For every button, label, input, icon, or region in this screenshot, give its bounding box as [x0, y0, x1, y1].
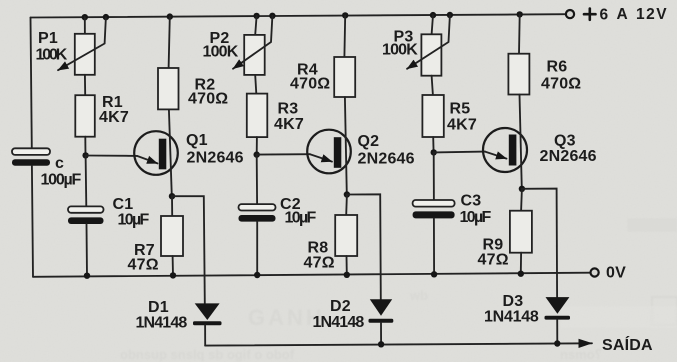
wire: emitter node to Q1 emitter — [86, 155, 137, 157]
resistor R9 — [510, 211, 532, 253]
wire: R1 to emitter node — [84, 137, 86, 156]
svg-text:4K7: 4K7 — [274, 116, 304, 133]
wire: R5 to emitter node — [432, 137, 434, 152]
wire: rail to R2 — [169, 17, 170, 68]
svg-text:4K7: 4K7 — [99, 109, 129, 126]
wire: B1 node to D3 branch — [522, 189, 557, 298]
svg-text:nsmo⸮: nsmo⸮ — [560, 347, 602, 362]
junction: B1 node stage 2 — [344, 191, 350, 197]
svg-text:D1: D1 — [148, 299, 169, 316]
transistor Q3 circle — [483, 128, 527, 172]
potentiometer P1 wiper arrow — [58, 17, 106, 70]
wire: R7 to 0V rail — [172, 256, 174, 275]
wire: C3 to 0V rail — [433, 218, 435, 274]
svg-text:2N2646: 2N2646 — [187, 150, 244, 167]
diode D3 triangle — [546, 297, 570, 314]
capacitor C3 — [413, 200, 455, 207]
transistor Q2 base bar — [334, 137, 342, 168]
svg-text:1N4148: 1N4148 — [136, 315, 188, 332]
wire: D2 to output rail — [380, 323, 382, 345]
potentiometer P1 body — [75, 34, 95, 75]
wire: D3 to output rail — [556, 320, 558, 344]
junction: B1 node stage 1 — [169, 193, 175, 199]
svg-text:470Ω: 470Ω — [541, 76, 581, 93]
wire: rail to R4 — [343, 15, 346, 57]
wire: B1 node to D2 branch — [347, 194, 381, 299]
wire: C2 to 0V rail — [256, 222, 258, 275]
svg-text:12V: 12V — [636, 6, 668, 23]
svg-text:R5: R5 — [450, 101, 471, 118]
diode D1 triangle — [195, 303, 220, 320]
junction: emitter node stage 3 — [431, 149, 437, 155]
resistor R7 — [161, 216, 183, 256]
wire: rail to P2 top — [255, 16, 256, 35]
svg-text:C3: C3 — [461, 193, 482, 210]
junction: P1 top on +V rail — [82, 14, 88, 20]
diode D3 cathode bar — [545, 316, 571, 320]
wire: rail to P1 top — [84, 17, 86, 34]
capacitor C2 — [239, 204, 276, 210]
junction: P2 top on +V rail — [253, 13, 259, 19]
diode D1 cathode bar — [193, 321, 222, 325]
wire: B1 node to R9 — [520, 189, 523, 211]
svg-text:10µF: 10µF — [118, 211, 150, 228]
transistor Q3 emitter arrow — [485, 152, 507, 159]
wire: R6 to Q3 base line — [520, 95, 522, 189]
svg-text:Q3: Q3 — [554, 133, 576, 150]
wire: B1 node to R7 — [171, 196, 173, 216]
junction: R6 top on +V rail — [517, 11, 523, 17]
svg-text:470Ω: 470Ω — [290, 76, 330, 93]
junction: R8 on 0V rail — [344, 272, 350, 278]
diode D2 triangle — [370, 299, 392, 316]
svg-text:A: A — [617, 6, 630, 23]
svg-text:obnsup snslq sb ogif o obof: obnsup snslq sb ogif o obof — [120, 347, 295, 362]
wire: R8 to 0V rail — [346, 256, 348, 275]
svg-text:100K: 100K — [382, 42, 418, 59]
junction: R7 on 0V rail — [170, 272, 176, 278]
terminal: 0V open circle — [591, 268, 599, 276]
junction: R9 on 0V rail — [518, 271, 524, 277]
resistor R5 — [422, 95, 443, 137]
wire: C3 top — [433, 152, 435, 200]
svg-text:10µF: 10µF — [285, 210, 317, 227]
wire: capacitor C to 0V rail — [32, 166, 33, 277]
svg-text:c: c — [55, 155, 64, 172]
resistor R3 — [247, 94, 267, 138]
svg-text:10µF: 10µF — [460, 209, 492, 226]
wire: P1 to R1 — [84, 75, 86, 95]
svg-text:2N2646: 2N2646 — [358, 151, 415, 168]
svg-text:0V: 0V — [606, 265, 626, 282]
junction: R4 top on +V rail — [342, 12, 348, 18]
resistor R8 — [335, 215, 357, 256]
svg-text:Q1: Q1 — [186, 132, 208, 149]
junction: R2 top on +V rail — [167, 13, 173, 19]
wire: R3 to emitter node — [256, 137, 258, 154]
junction: C2 on 0V rail — [254, 272, 260, 278]
junction: emitter node stage 1 — [82, 152, 88, 158]
wire: C2 top — [256, 155, 258, 205]
wire: rail to P3 top — [432, 15, 433, 34]
svg-text:100K: 100K — [36, 47, 68, 64]
resistor R4 — [334, 57, 355, 97]
resistor R1 — [75, 95, 95, 137]
potentiometer P3 body — [421, 34, 441, 75]
svg-text:1N4148: 1N4148 — [313, 314, 365, 331]
junction: D2 on output rail — [378, 341, 384, 347]
wire: C1 to 0V rail — [86, 224, 89, 276]
capacitor C — [12, 148, 50, 155]
wire: rail to R6 — [518, 14, 521, 53]
transistor Q2 circle — [307, 130, 351, 174]
transistor Q3 base bar — [509, 135, 517, 166]
diode D2 cathode bar — [369, 319, 394, 323]
junction: P1 wiper on +V rail — [103, 14, 109, 20]
wire: emitter node to Q2 emitter — [257, 153, 310, 155]
faint bleed-through ghost text — [120, 218, 677, 362]
svg-text:P1: P1 — [38, 30, 58, 47]
svg-text:R3: R3 — [278, 101, 299, 118]
label: +6 A 12V — [584, 9, 596, 20]
svg-text:47Ω: 47Ω — [128, 257, 159, 274]
wire: left branch vertical (top rail to capacitor C) — [31, 18, 32, 149]
capacitor C1 — [68, 206, 104, 212]
wire: B1 node to D1 branch — [172, 196, 205, 304]
svg-text:6: 6 — [600, 6, 610, 23]
svg-text:4K7: 4K7 — [447, 117, 477, 134]
svg-text:1N4148: 1N4148 — [484, 309, 539, 326]
junction: D3 on output rail — [554, 340, 560, 346]
svg-text:Q2: Q2 — [358, 133, 380, 150]
wire: 0V rail — [33, 273, 590, 277]
svg-text:C1: C1 — [113, 196, 134, 213]
resistor R6 — [508, 54, 529, 95]
junction: emitter node stage 2 — [254, 151, 260, 157]
transistor Q1 emitter arrow — [137, 156, 158, 164]
wire: +V top rail — [31, 14, 566, 17]
wire: D1 to output rail — [204, 325, 206, 345]
svg-text:470Ω: 470Ω — [188, 91, 228, 108]
wire: R2 to Q1 base2/base1 line — [169, 109, 172, 196]
svg-text:wb: wb — [409, 288, 428, 303]
svg-text:SAÍDA: SAÍDA — [602, 335, 653, 354]
wire: C1 top — [85, 156, 88, 207]
wire: output rail (SAIDA line) — [205, 343, 592, 345]
wire: B1 node to R8 — [345, 195, 348, 216]
junction: P3 top on +V rail — [430, 12, 436, 18]
wire: P2 to R3 — [255, 75, 256, 94]
transistor Q1 circle — [134, 131, 178, 175]
resistor R2 — [158, 68, 179, 109]
svg-text:2N2646: 2N2646 — [540, 148, 597, 165]
wire: R4 to Q2 base line — [345, 97, 347, 195]
junction: C3 on 0V rail — [431, 271, 437, 277]
potentiometer P2 wiper arrow — [233, 16, 272, 69]
svg-text:47Ω: 47Ω — [478, 252, 509, 269]
transistor Q1 base bar — [159, 139, 167, 170]
terminal: +V open circle — [566, 10, 574, 18]
wire: P3 to R5 — [432, 76, 433, 95]
potentiometer P3 wiper arrow — [407, 15, 450, 69]
svg-text:R6: R6 — [547, 59, 568, 76]
junction: P3 wiper on +V rail — [447, 12, 453, 18]
svg-text:47Ω: 47Ω — [304, 255, 335, 272]
svg-text:D3: D3 — [503, 293, 524, 310]
svg-text:D2: D2 — [330, 298, 351, 315]
wire: emitter node to Q3 emitter — [434, 151, 485, 154]
svg-text:100µF: 100µF — [41, 172, 82, 189]
transistor Q2 emitter arrow — [310, 154, 332, 161]
wire: R9 to 0V rail — [520, 253, 522, 274]
junction: C1 on 0V rail — [84, 273, 90, 279]
junction: P2 wiper on +V rail — [269, 13, 275, 19]
junction: B1 node stage 3 — [519, 186, 525, 192]
svg-text:100K: 100K — [203, 44, 239, 61]
potentiometer P2 body — [244, 35, 265, 75]
